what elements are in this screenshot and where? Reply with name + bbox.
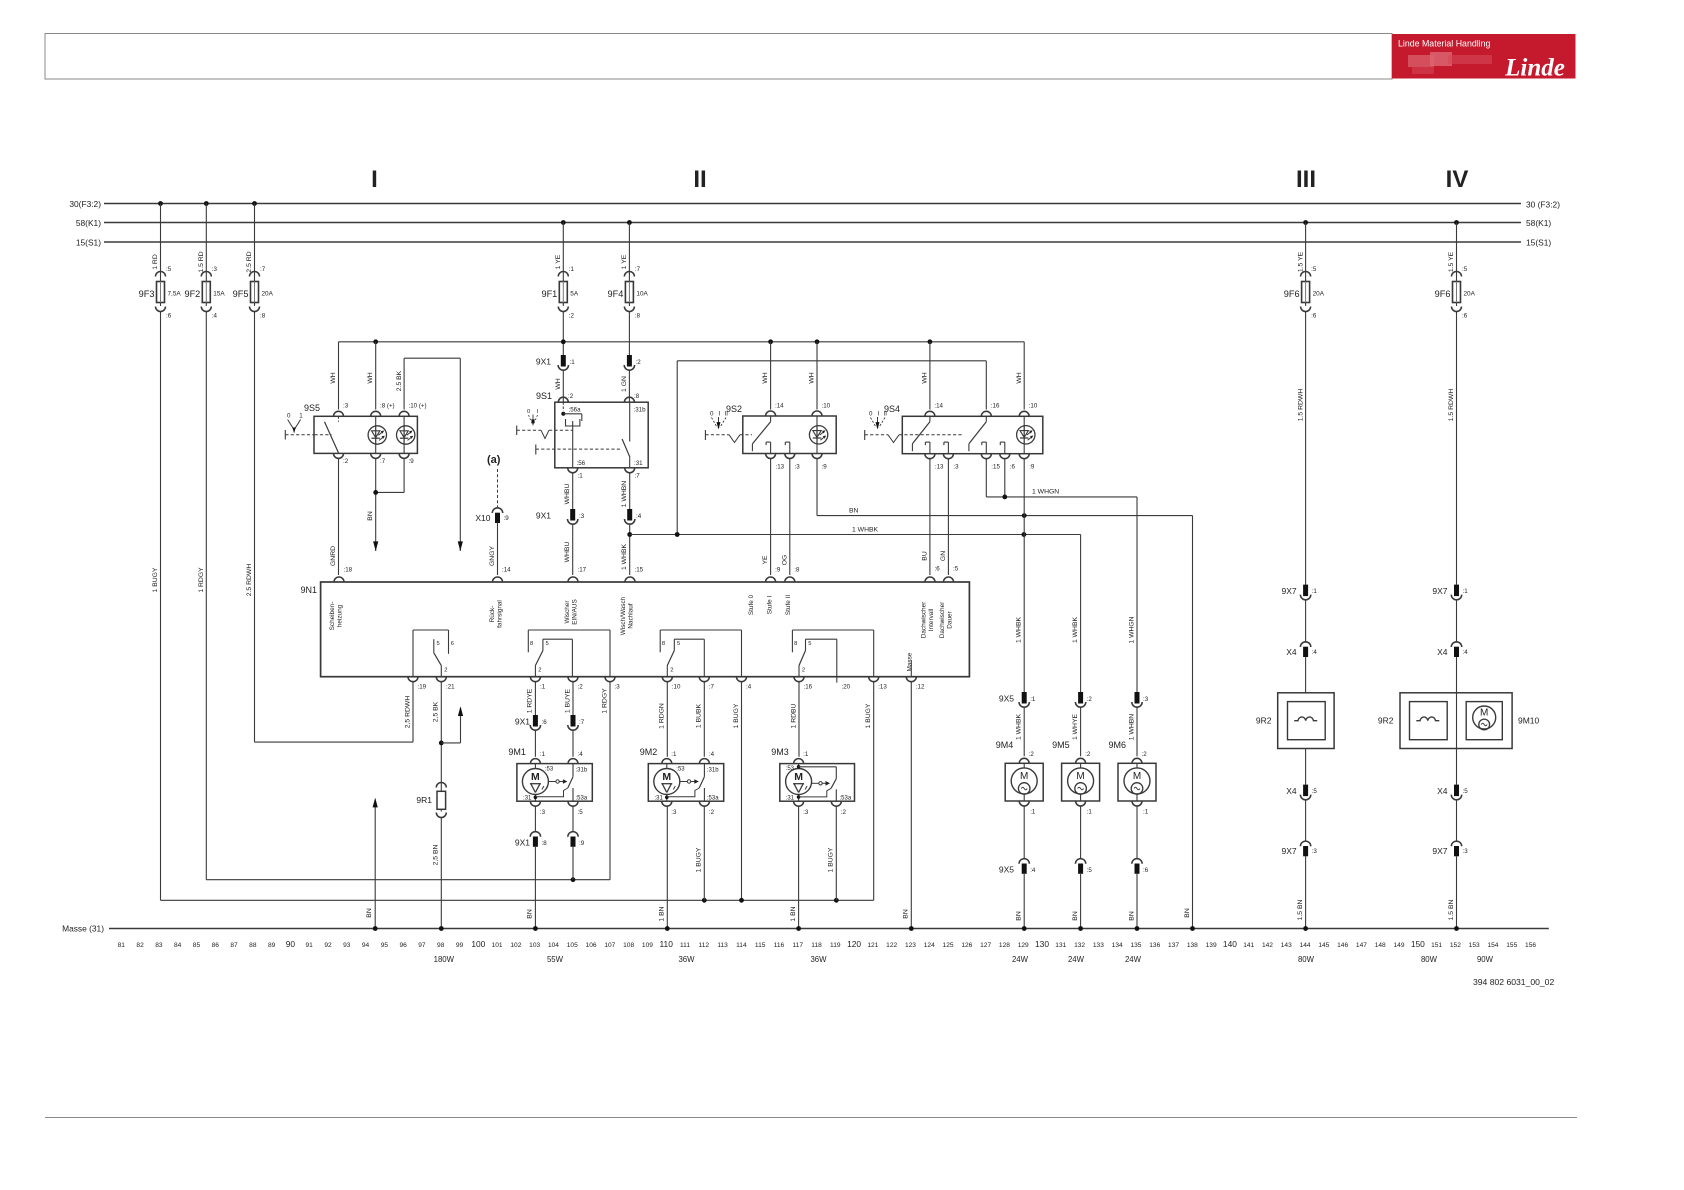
svg-text:136: 136 bbox=[1149, 942, 1160, 949]
svg-text:84: 84 bbox=[174, 942, 182, 949]
wire 9F6 III output 1.5 RDWH bbox=[1297, 312, 1305, 585]
svg-text:Dauer: Dauer bbox=[947, 610, 954, 628]
wire X4:5 to 9X7:3 (IV) bbox=[1456, 800, 1458, 842]
junction bbox=[1022, 532, 1027, 537]
wire 1 RDYE 9N1:1 to 9X1:6 bbox=[527, 682, 536, 715]
svg-text:1 WHBN: 1 WHBN bbox=[1128, 714, 1135, 741]
junction on Masse bbox=[665, 926, 670, 931]
wire 9M3:2 1 BUGY to collector bbox=[828, 807, 837, 901]
wire 9M2:3 1 BN to Masse bbox=[659, 807, 668, 929]
svg-text:5: 5 bbox=[808, 641, 811, 647]
svg-text:1: 1 bbox=[299, 413, 303, 420]
connector 9X1 pin 8 bbox=[515, 807, 547, 848]
wiper motor 9M3 bbox=[771, 747, 854, 816]
svg-text:1 BUBK: 1 BUBK bbox=[696, 703, 703, 728]
svg-text:88: 88 bbox=[249, 942, 257, 949]
svg-text:Rück-: Rück- bbox=[489, 606, 496, 623]
svg-text:2: 2 bbox=[538, 668, 541, 674]
connector 9X1 pin 6 bbox=[515, 715, 547, 730]
svg-text:BN: BN bbox=[1072, 911, 1079, 921]
net 15(S1) bus bbox=[76, 238, 1551, 248]
svg-text:GNGY: GNGY bbox=[489, 546, 496, 566]
svg-text:1 BN: 1 BN bbox=[659, 906, 666, 921]
svg-text:133: 133 bbox=[1093, 942, 1104, 949]
wire 1 WHBN 9S1:7 to 9X1:4 bbox=[621, 473, 630, 509]
svg-text:137: 137 bbox=[1168, 942, 1179, 949]
svg-text:153: 153 bbox=[1469, 942, 1480, 949]
svg-text:1.5 YE: 1.5 YE bbox=[1297, 251, 1304, 272]
svg-text:94: 94 bbox=[362, 942, 370, 949]
svg-text::4: :4 bbox=[1463, 649, 1469, 656]
svg-text:9X1: 9X1 bbox=[515, 717, 530, 727]
svg-text::2: :2 bbox=[636, 359, 642, 366]
svg-text:Stufe II: Stufe II bbox=[785, 595, 792, 615]
header frame bbox=[45, 34, 1392, 80]
svg-text:131: 131 bbox=[1055, 942, 1066, 949]
svg-text:24W: 24W bbox=[1068, 955, 1085, 964]
svg-text::10: :10 bbox=[672, 684, 681, 691]
svg-text:1 RDGN: 1 RDGN bbox=[659, 703, 666, 729]
svg-text:146: 146 bbox=[1337, 942, 1348, 949]
svg-text:1 YE: 1 YE bbox=[621, 254, 628, 269]
svg-text::53: :53 bbox=[545, 767, 554, 773]
svg-text::5: :5 bbox=[578, 809, 584, 816]
junction on Masse bbox=[1454, 926, 1459, 931]
svg-text::3: :3 bbox=[953, 464, 959, 471]
svg-text:1.5 BN: 1.5 BN bbox=[1448, 900, 1455, 921]
svg-text:119: 119 bbox=[830, 942, 841, 949]
svg-text:Stufe 0: Stufe 0 bbox=[748, 594, 755, 615]
svg-text::10: :10 bbox=[822, 403, 831, 410]
svg-text:124: 124 bbox=[924, 942, 935, 949]
svg-text::3: :3 bbox=[343, 403, 349, 410]
svg-text::9: :9 bbox=[579, 840, 585, 847]
wire WH to 9S5 pin 8 bbox=[367, 342, 376, 410]
svg-text:92: 92 bbox=[324, 942, 332, 949]
svg-text:WH: WH bbox=[367, 372, 374, 383]
svg-text:100: 100 bbox=[471, 939, 485, 949]
svg-text::1: :1 bbox=[1030, 809, 1036, 816]
svg-text:20A: 20A bbox=[262, 291, 274, 298]
svg-text:98: 98 bbox=[437, 942, 445, 949]
wire 1 RDGN 9N1:10 to 9M2:1 bbox=[659, 682, 668, 757]
svg-text::53: :53 bbox=[676, 767, 685, 773]
svg-text:129: 129 bbox=[1018, 942, 1029, 949]
svg-text:147: 147 bbox=[1356, 942, 1367, 949]
svg-text:1 RD: 1 RD bbox=[152, 254, 159, 270]
wire 1 GN 9X1:2 to 9S1 bbox=[621, 370, 630, 402]
svg-text:8: 8 bbox=[530, 641, 533, 647]
connector X4 pin 4 (IV) bbox=[1437, 642, 1468, 657]
svg-text:9X7: 9X7 bbox=[1281, 586, 1296, 596]
svg-text:1 BUGY: 1 BUGY bbox=[696, 847, 703, 872]
svg-text:BN: BN bbox=[1128, 911, 1135, 921]
svg-text:128: 128 bbox=[999, 942, 1010, 949]
svg-text::2: :2 bbox=[1142, 751, 1148, 758]
svg-text:151: 151 bbox=[1431, 942, 1442, 949]
svg-text:9M1: 9M1 bbox=[508, 747, 526, 757]
svg-text:89: 89 bbox=[268, 942, 276, 949]
svg-text::8: :8 bbox=[634, 393, 640, 400]
svg-text::13: :13 bbox=[935, 464, 944, 471]
junction on Masse bbox=[1190, 926, 1195, 931]
wire park feed line bbox=[206, 879, 610, 881]
wire WH to 9S2 pin 14 bbox=[762, 342, 771, 410]
svg-text:9F6: 9F6 bbox=[1284, 289, 1300, 299]
svg-text:154: 154 bbox=[1487, 942, 1498, 949]
svg-text:M: M bbox=[794, 771, 803, 783]
wire WH to 9S4 pin 14 bbox=[922, 342, 930, 410]
junction on Masse bbox=[373, 926, 378, 931]
svg-text::7: :7 bbox=[709, 684, 715, 691]
svg-text::31: :31 bbox=[634, 460, 643, 467]
wire 1.5 BN to Masse (IV) bbox=[1448, 856, 1457, 928]
wire 9R2 to X4:5 (III) bbox=[1305, 749, 1307, 785]
Linde logo box bbox=[1392, 34, 1576, 82]
svg-text::18: :18 bbox=[344, 567, 353, 574]
svg-text:86: 86 bbox=[212, 942, 220, 949]
svg-text:WH: WH bbox=[330, 372, 337, 383]
svg-text:116: 116 bbox=[774, 942, 785, 949]
svg-text::2: :2 bbox=[1087, 696, 1093, 703]
wire 1 RDGY 9N1:3 to park line bbox=[601, 682, 610, 880]
svg-text:1.5 YE: 1.5 YE bbox=[1448, 251, 1455, 272]
fuse 9F5 20A bbox=[233, 204, 274, 320]
switch 9S1 intermittent relay bbox=[517, 391, 649, 480]
junction on Masse bbox=[1078, 926, 1083, 931]
svg-text:BN: BN bbox=[1184, 908, 1191, 918]
svg-text::5: :5 bbox=[1312, 788, 1318, 795]
wire 1 BUGY 9N1:4 down bbox=[733, 682, 742, 900]
svg-text:WH: WH bbox=[922, 372, 929, 383]
wire 1 WHBK 9S4:9 down to 9X5:1 bbox=[1016, 459, 1024, 692]
wire 1 WHBK 9X1:4 down bbox=[621, 525, 630, 576]
svg-text:M: M bbox=[1480, 708, 1488, 719]
wire 9M3:3 1 BN to Masse bbox=[790, 807, 799, 929]
svg-text::1: :1 bbox=[540, 684, 546, 691]
svg-text::31: :31 bbox=[523, 796, 532, 802]
junction on Masse bbox=[439, 926, 444, 931]
wire BN 9S2:9 lamp ground bbox=[817, 459, 1193, 516]
svg-text::2: :2 bbox=[1085, 751, 1091, 758]
svg-text:1 BUGY: 1 BUGY bbox=[152, 567, 159, 592]
svg-text:Linde: Linde bbox=[1504, 55, 1565, 82]
svg-text:I: I bbox=[878, 411, 880, 418]
arrow continuation up bbox=[458, 706, 463, 716]
wire BN 9X5:6 to Masse bbox=[1128, 874, 1137, 929]
svg-text:BN: BN bbox=[527, 909, 534, 919]
svg-text::3: :3 bbox=[540, 809, 546, 816]
svg-text::6: :6 bbox=[1010, 464, 1016, 471]
connector X4 pin 5 (III) bbox=[1286, 785, 1317, 800]
svg-text:2,5 BN: 2,5 BN bbox=[433, 845, 440, 866]
wire 1 BUYE 9N1:2 to 9X1:7 bbox=[564, 682, 573, 715]
connector 9X1 pin 3 bbox=[536, 509, 585, 524]
junction bbox=[834, 898, 839, 903]
wire 9S4:6 drop bbox=[1004, 459, 1006, 497]
svg-text::7: :7 bbox=[635, 266, 641, 273]
svg-text:2.5 RDWH: 2.5 RDWH bbox=[246, 564, 253, 597]
svg-text:2: 2 bbox=[444, 668, 447, 674]
wire WHBU 9S1:1 to 9X1:3 bbox=[564, 473, 573, 509]
svg-text:101: 101 bbox=[492, 942, 503, 949]
svg-text:II: II bbox=[884, 411, 888, 418]
svg-text::7: :7 bbox=[260, 266, 266, 273]
svg-text::53a: :53a bbox=[707, 796, 719, 802]
junction on Masse bbox=[1135, 926, 1140, 931]
wire 9F4 output bbox=[628, 312, 630, 356]
svg-text::14: :14 bbox=[502, 567, 511, 574]
wire 2.5 BK 9N1:21 to 9R1 bbox=[433, 682, 442, 783]
svg-text:109: 109 bbox=[642, 942, 653, 949]
svg-text:9M4: 9M4 bbox=[996, 740, 1014, 750]
svg-text:1 GN: 1 GN bbox=[621, 376, 628, 392]
svg-text:2.5 RD: 2.5 RD bbox=[246, 251, 253, 272]
wire 9F6 IV output 1.5 RDWH bbox=[1448, 312, 1456, 585]
svg-text:X4: X4 bbox=[1437, 786, 1448, 796]
svg-text::15: :15 bbox=[635, 567, 644, 574]
wire 9X7:1 to X4:4 (III) bbox=[1305, 600, 1307, 643]
svg-text:II: II bbox=[725, 411, 729, 418]
svg-text:9M3: 9M3 bbox=[771, 747, 789, 757]
junction bbox=[928, 339, 933, 344]
connector 9X7 pin 3 (III) bbox=[1281, 841, 1317, 856]
svg-text:heizung: heizung bbox=[337, 604, 344, 627]
svg-text:5: 5 bbox=[677, 641, 680, 647]
svg-text:BU: BU bbox=[921, 551, 928, 561]
svg-text::3: :3 bbox=[579, 513, 585, 520]
svg-text::56a: :56a bbox=[569, 407, 582, 414]
connector 9X1 pin 1 bbox=[536, 355, 575, 370]
svg-text:102: 102 bbox=[510, 942, 521, 949]
wire drop to 9S5 pin 3 bbox=[338, 342, 340, 410]
svg-text:2: 2 bbox=[802, 668, 805, 674]
control unit 9N1 bbox=[300, 566, 969, 691]
svg-text:BN: BN bbox=[849, 508, 859, 515]
wire WH to 9S4 pin 10 bbox=[1016, 342, 1024, 410]
svg-text::5: :5 bbox=[1087, 867, 1093, 874]
wire branch to arrow up bbox=[441, 708, 460, 743]
fuse 9F6 20A bbox=[1284, 223, 1325, 320]
svg-text:1.5 RDWH: 1.5 RDWH bbox=[1448, 389, 1455, 422]
wire BN 9X1:8 to Masse bbox=[527, 847, 536, 929]
svg-text:143: 143 bbox=[1281, 942, 1292, 949]
wire 1 WHBK 9X5:1 to 9M4 bbox=[1016, 708, 1025, 757]
svg-text:106: 106 bbox=[586, 942, 597, 949]
svg-text:Nachlauf: Nachlauf bbox=[628, 603, 635, 628]
svg-text:9X7: 9X7 bbox=[1432, 586, 1447, 596]
svg-text:M: M bbox=[662, 771, 671, 783]
svg-text:15A: 15A bbox=[213, 291, 225, 298]
wire 1 WHBK down to 9X5:2 bbox=[1072, 535, 1081, 693]
wire 1 WHYE 9X5:2 to 9M5 bbox=[1072, 708, 1081, 757]
svg-text::14: :14 bbox=[934, 403, 943, 410]
junction on Masse bbox=[1022, 926, 1027, 931]
svg-text:148: 148 bbox=[1375, 942, 1386, 949]
connector 9X1 pin 2 bbox=[624, 355, 641, 370]
svg-text:IV: IV bbox=[1446, 166, 1469, 193]
junction bbox=[739, 898, 744, 903]
svg-text:87: 87 bbox=[230, 942, 238, 949]
svg-text:Dachwischer: Dachwischer bbox=[939, 601, 946, 638]
junction on bus 30 bbox=[252, 201, 257, 206]
wire 1 RDBU 9N1:16 to 9M3:1 bbox=[790, 682, 799, 757]
svg-text:103: 103 bbox=[529, 942, 540, 949]
svg-text::2: :2 bbox=[841, 809, 847, 816]
svg-text::20: :20 bbox=[842, 684, 851, 691]
svg-text::4: :4 bbox=[709, 751, 715, 758]
svg-text:9X1: 9X1 bbox=[536, 357, 551, 367]
svg-text::8: :8 bbox=[542, 840, 548, 847]
svg-text:96: 96 bbox=[399, 942, 407, 949]
wire 9M2:2 1 BUGY to collector bbox=[696, 807, 705, 901]
wire 1 BUGY 9N1:13 down bbox=[865, 682, 874, 900]
svg-text::19: :19 bbox=[418, 684, 427, 691]
svg-text:2,5 RDWH: 2,5 RDWH bbox=[404, 696, 411, 729]
svg-text:58(K1): 58(K1) bbox=[1526, 218, 1551, 228]
svg-text:1 RDGY: 1 RDGY bbox=[601, 688, 608, 714]
svg-text:36W: 36W bbox=[810, 955, 827, 964]
svg-text::3: :3 bbox=[615, 684, 621, 691]
svg-text::3: :3 bbox=[212, 266, 218, 273]
svg-text:141: 141 bbox=[1243, 942, 1254, 949]
resistor 9R1 bbox=[416, 783, 446, 818]
junction bbox=[561, 339, 566, 344]
svg-text::7: :7 bbox=[380, 458, 386, 465]
wire ground collector line bbox=[161, 899, 874, 901]
svg-text::56: :56 bbox=[577, 460, 586, 467]
svg-text:9S1: 9S1 bbox=[536, 391, 552, 401]
svg-text:WHBU: WHBU bbox=[564, 542, 571, 563]
svg-text::8: :8 bbox=[635, 313, 641, 320]
svg-text:108: 108 bbox=[623, 942, 634, 949]
wire 2.5 BK from 9S5 pin 10 to arrow bbox=[396, 358, 461, 551]
switch 9S2 front wiper bbox=[705, 403, 836, 471]
svg-text:9R2: 9R2 bbox=[1256, 716, 1272, 726]
svg-text::5: :5 bbox=[166, 266, 172, 273]
svg-text:0: 0 bbox=[710, 411, 714, 418]
svg-text:85: 85 bbox=[193, 942, 201, 949]
svg-text::16: :16 bbox=[991, 403, 1000, 410]
svg-text:90W: 90W bbox=[1477, 955, 1494, 964]
svg-text::2: :2 bbox=[1029, 751, 1035, 758]
svg-text:M: M bbox=[1020, 771, 1028, 782]
svg-text:M: M bbox=[531, 771, 540, 783]
svg-text:III: III bbox=[1296, 166, 1316, 193]
wire BN down to Masse bbox=[1184, 516, 1193, 929]
svg-text:135: 135 bbox=[1130, 942, 1141, 949]
svg-text::4: :4 bbox=[636, 513, 642, 520]
svg-text:30(F3:2): 30(F3:2) bbox=[69, 199, 101, 209]
junction on bus 58 bbox=[1454, 220, 1459, 225]
svg-text:104: 104 bbox=[548, 942, 559, 949]
junction bbox=[1002, 495, 1007, 500]
svg-text::7: :7 bbox=[635, 473, 641, 480]
svg-text::1: :1 bbox=[540, 751, 546, 758]
svg-text:X10: X10 bbox=[475, 513, 490, 523]
fuse 9F3 7,5A bbox=[139, 204, 182, 320]
connector 9X5 pin 2 bbox=[1075, 692, 1092, 707]
connector 9X1 pin 7 bbox=[568, 715, 585, 730]
svg-text:2.5 BK: 2.5 BK bbox=[396, 370, 403, 391]
svg-text:Stufe I: Stufe I bbox=[767, 596, 774, 615]
terminal numbers 81-156 bbox=[118, 939, 1537, 949]
svg-text:1 WHBK: 1 WHBK bbox=[1016, 714, 1023, 741]
svg-text:105: 105 bbox=[567, 942, 578, 949]
svg-text:30 (F3:2): 30 (F3:2) bbox=[1526, 200, 1560, 210]
svg-text:OG: OG bbox=[781, 555, 788, 566]
junction bbox=[571, 877, 576, 882]
arrow continuation down bbox=[373, 541, 378, 551]
svg-text::53: :53 bbox=[786, 766, 795, 772]
svg-text:BN: BN bbox=[366, 908, 373, 918]
svg-text::9: :9 bbox=[409, 458, 415, 465]
connector 9X5 pin 1 bbox=[999, 692, 1036, 707]
svg-text:80W: 80W bbox=[1298, 955, 1315, 964]
connector 9X5 pin 5 bbox=[1075, 806, 1092, 874]
svg-text:Intervall: Intervall bbox=[928, 609, 935, 631]
svg-text:Masse (31): Masse (31) bbox=[62, 924, 104, 934]
svg-text:9F3: 9F3 bbox=[139, 289, 155, 299]
svg-text:I: I bbox=[371, 166, 378, 193]
wire 1.5 BN to Masse (III) bbox=[1297, 856, 1306, 928]
washer pump motor 9M6 bbox=[1109, 740, 1157, 806]
wire 9X1:9 drop to park line bbox=[572, 847, 574, 880]
wire 9S5 lamp ground BN to arrow bbox=[367, 459, 404, 551]
svg-text:15(S1): 15(S1) bbox=[1526, 238, 1551, 248]
wire 9F2 output 1 RDGY bbox=[198, 312, 206, 880]
wire 9X1:7 to 9M1:4 bbox=[572, 731, 574, 757]
svg-text:9F2: 9F2 bbox=[184, 289, 200, 299]
connector 9X5 pin 6 bbox=[1132, 806, 1149, 874]
svg-text:149: 149 bbox=[1394, 942, 1405, 949]
svg-text:180W: 180W bbox=[434, 955, 455, 964]
svg-text:1.5 BN: 1.5 BN bbox=[1297, 900, 1304, 921]
svg-text::10: :10 bbox=[1029, 403, 1038, 410]
washer pump motor 9M5 bbox=[1052, 740, 1100, 806]
svg-text:1 BUYE: 1 BUYE bbox=[564, 688, 571, 713]
svg-text:115: 115 bbox=[755, 942, 766, 949]
connector 9X1 pin 4 bbox=[625, 509, 642, 524]
svg-text::21: :21 bbox=[446, 684, 455, 691]
svg-text::1: :1 bbox=[570, 359, 576, 366]
svg-text:2,5 BK: 2,5 BK bbox=[433, 701, 440, 722]
svg-text::8: :8 bbox=[260, 313, 266, 320]
svg-text::1: :1 bbox=[1087, 809, 1093, 816]
svg-text:Linde Material Handling: Linde Material Handling bbox=[1398, 39, 1491, 49]
svg-text:9S2: 9S2 bbox=[726, 404, 742, 414]
svg-text::7: :7 bbox=[579, 719, 585, 726]
svg-text:134: 134 bbox=[1112, 942, 1123, 949]
junction on bus 58 bbox=[627, 220, 632, 225]
svg-text::17: :17 bbox=[578, 567, 587, 574]
svg-text::4: :4 bbox=[578, 751, 584, 758]
svg-text:0: 0 bbox=[527, 409, 530, 415]
svg-text:82: 82 bbox=[136, 942, 144, 949]
wire 9F3 output 1 BUGY bbox=[152, 312, 161, 901]
svg-text:130: 130 bbox=[1035, 939, 1049, 949]
svg-text::6: :6 bbox=[542, 719, 548, 726]
junction on Masse bbox=[1303, 926, 1308, 931]
svg-text:9S5: 9S5 bbox=[304, 403, 320, 413]
svg-text::1: :1 bbox=[1030, 696, 1036, 703]
wire 2.5 RDWH 9N1:19 to 9F5 bbox=[255, 682, 414, 742]
ground Masse (31) bus bbox=[62, 924, 1549, 934]
wire 1 WHBN 9X5:3 to 9M6 bbox=[1128, 708, 1137, 757]
svg-text::3: :3 bbox=[1463, 848, 1469, 855]
connector X10 pin 9 bbox=[475, 469, 509, 523]
svg-text:97: 97 bbox=[418, 942, 426, 949]
